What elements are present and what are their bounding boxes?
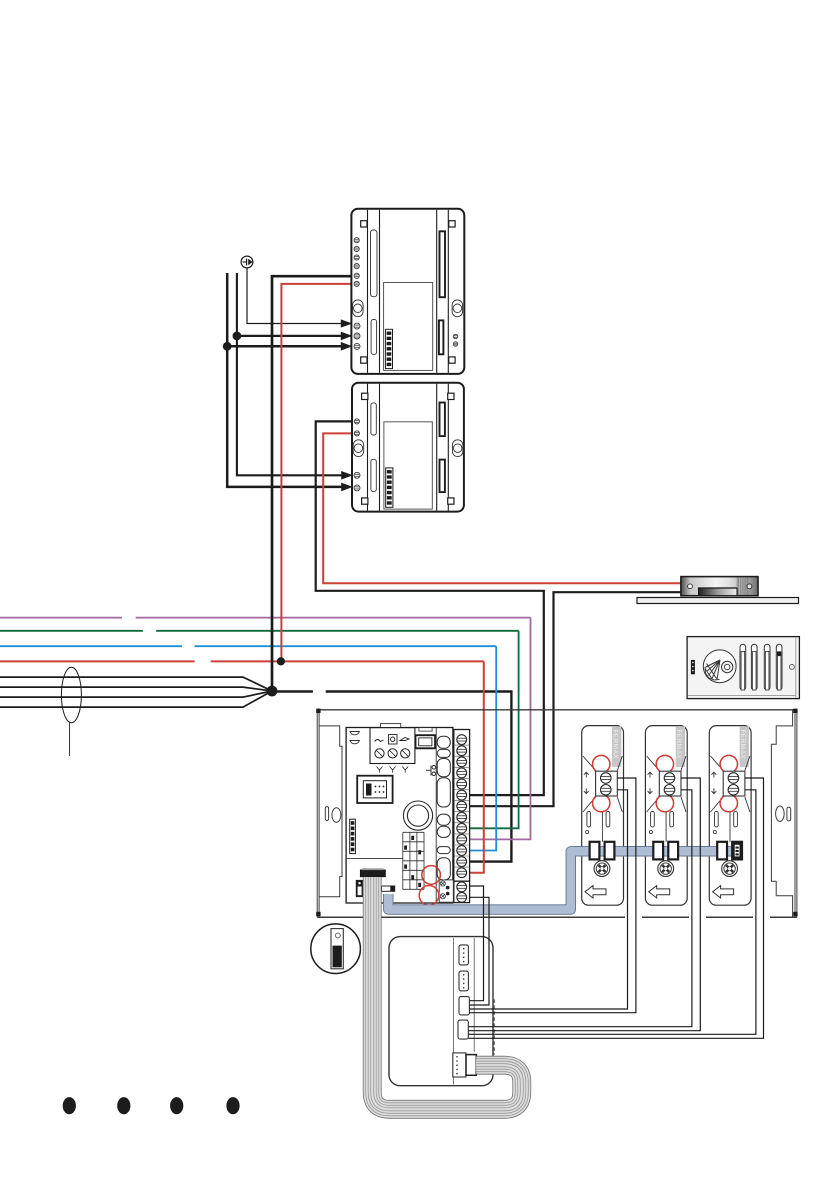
wire black monitor1 to junction bbox=[272, 276, 353, 691]
wire green drop to terminal bbox=[470, 631, 519, 829]
wire red drop to terminal bbox=[470, 661, 484, 872]
wire purple drop to terminal bbox=[470, 618, 531, 840]
junction dot red bbox=[277, 657, 285, 665]
wire feed line A into monitor1 (arrow) bbox=[237, 273, 342, 475]
svg-text:FERMAX: FERMAX bbox=[675, 730, 682, 760]
footer bullet dots bbox=[63, 1097, 76, 1114]
amplifier module body bbox=[346, 728, 453, 904]
display module bbox=[389, 937, 493, 1086]
button module 1 bbox=[582, 726, 624, 906]
frame right oval + bar bbox=[776, 806, 785, 821]
button module 2 connectors bbox=[649, 842, 678, 898]
ribbon cable amp to display bbox=[372, 877, 522, 1109]
amp jumper symbol bbox=[426, 766, 436, 776]
frame corner marks bbox=[316, 709, 797, 917]
cable tie ellipse marker bbox=[61, 667, 81, 722]
amp top small rect bbox=[419, 728, 432, 731]
wire red monitor2 to door strike bbox=[323, 433, 682, 583]
wire black door strike to panel bbox=[470, 592, 682, 806]
wire thin from symbol to monitor1 terminal (arrow) bbox=[247, 268, 342, 324]
frame right profile bbox=[771, 710, 792, 917]
amp top tab bbox=[381, 724, 401, 728]
wire red bus (left feed) bbox=[0, 660, 484, 662]
display connector J3 bbox=[459, 997, 469, 1015]
junction dot B bbox=[223, 342, 232, 351]
frame left profile bbox=[319, 726, 342, 897]
camera speaker unit bbox=[687, 637, 799, 699]
amp vent slots bbox=[437, 736, 450, 880]
amp aux connector (detail target) bbox=[356, 880, 364, 897]
red highlight circle on amp (lower) bbox=[419, 886, 439, 906]
button module 3 connectors bbox=[713, 842, 742, 898]
amp ribbon connector bbox=[360, 870, 385, 877]
monitor U2 (lower) bbox=[352, 383, 464, 512]
amp FERMAX label bbox=[350, 819, 356, 853]
wires amp to display conn3 bbox=[469, 886, 489, 1005]
display connector J2 bbox=[459, 971, 468, 991]
wire black junction to panel terminal bbox=[277, 692, 511, 862]
wire green bus (left feed) bbox=[0, 630, 519, 632]
display hidden edge (dashed) bbox=[493, 999, 495, 1054]
amp partition line bbox=[346, 858, 403, 860]
amp lower sub-board bbox=[439, 880, 453, 902]
wire blue drop to terminal bbox=[470, 646, 497, 850]
detail callout circle bbox=[311, 924, 361, 974]
amp mounting clips bbox=[350, 732, 359, 735]
door strike (lock release) bbox=[637, 577, 799, 604]
amp speaker bbox=[403, 801, 432, 830]
panel frame outer bbox=[317, 710, 797, 917]
display connector J1 bbox=[459, 945, 468, 965]
wire red monitor1 to red bus bbox=[281, 284, 352, 662]
amp small connector bbox=[382, 886, 395, 891]
amp terminal strip lower block bbox=[454, 881, 470, 902]
wires button modules to display connectors bbox=[468, 778, 763, 1038]
display connector J4 bbox=[458, 1020, 468, 1039]
svg-text:FERMAX: FERMAX bbox=[612, 730, 619, 760]
display ribbon connector J5 bbox=[453, 1053, 466, 1077]
grey band through modules bbox=[575, 846, 741, 856]
wire feed line B into monitors (arrow) bbox=[227, 273, 342, 487]
wire purple bus (left feed) bbox=[0, 617, 531, 619]
amp terminal strip bbox=[454, 730, 470, 882]
wire blue bus (left feed) bbox=[0, 645, 496, 647]
red highlight circle on amp (upper) bbox=[422, 866, 441, 885]
wire black 4-conductor bundle bbox=[0, 677, 272, 707]
junction dot bundle bbox=[267, 686, 278, 697]
amp programming connector bbox=[357, 776, 392, 803]
amp jumper field grid bbox=[403, 832, 424, 889]
frame left oval + bar bbox=[325, 807, 328, 821]
button module 3 bbox=[709, 726, 751, 906]
amp inner separator bbox=[435, 728, 437, 904]
wire black monitor2 loop to panel bbox=[316, 421, 544, 795]
earth/polarity symbol bbox=[241, 256, 253, 268]
amp relay box bbox=[416, 735, 436, 748]
button module 1 connectors bbox=[585, 842, 614, 898]
grey interconnect band amp to buttons bbox=[388, 851, 741, 909]
amp adjustment sub-board bbox=[370, 728, 415, 764]
button module 2 bbox=[645, 726, 687, 906]
junction dot A bbox=[233, 332, 242, 341]
monitor U1 (upper) bbox=[351, 209, 464, 374]
svg-text:FERMAX: FERMAX bbox=[739, 730, 746, 760]
